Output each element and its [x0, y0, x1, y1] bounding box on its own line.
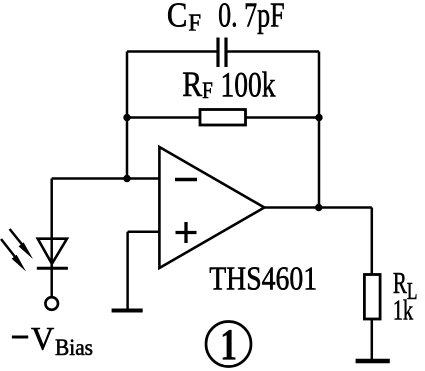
- svg-text:1k: 1k: [393, 294, 414, 326]
- label RL: [393, 266, 418, 305]
- wire inverting input: [52, 177, 160, 180]
- wire noninverting input: [128, 231, 160, 234]
- svg-text:F: F: [188, 11, 201, 37]
- wire RL bottom stem: [371, 319, 374, 361]
- wire RL top stem: [371, 208, 374, 276]
- photodiode cathode bar: [37, 267, 68, 270]
- wire top feedback branch right: [228, 50, 320, 53]
- ground (noninverting input): [112, 309, 143, 313]
- svg-text:THS4601: THS4601: [209, 261, 317, 298]
- label THS4601: [209, 261, 317, 298]
- svg-text:100k: 100k: [221, 65, 276, 105]
- junction node: output: [315, 204, 322, 211]
- light arrow upper: [10, 229, 33, 259]
- junction node: inverting input: [123, 175, 130, 182]
- capacitor CF 0.7pF: [218, 38, 226, 68]
- svg-text:Bias: Bias: [55, 335, 93, 360]
- resistor RL body: [364, 275, 380, 320]
- svg-text:F: F: [202, 78, 213, 103]
- resistor RF body: [200, 110, 246, 126]
- svg-text:V: V: [31, 322, 54, 358]
- label CF 0.7pF: [167, 0, 285, 37]
- svg-text:1: 1: [220, 320, 237, 369]
- wire right vertical (output feedback node): [318, 52, 321, 208]
- label RF 100k: [182, 64, 275, 105]
- wire photodiode stem: [50, 179, 53, 298]
- op-amp plus input symbol: [176, 222, 197, 243]
- junction node: RF left: [123, 114, 130, 121]
- op-amp minus input symbol: [175, 178, 197, 182]
- light arrow lower: [1, 239, 26, 272]
- wire top feedback branch left: [127, 50, 217, 53]
- svg-text:R: R: [182, 64, 202, 104]
- ground (RL): [356, 359, 390, 364]
- figure number 1 circle: [206, 320, 251, 369]
- svg-text:0. 7pF: 0. 7pF: [218, 0, 285, 35]
- junction node: RF right: [315, 114, 322, 121]
- op-amp U1 THS4601 triangle: [159, 147, 264, 268]
- wire ground stem (noninverting): [126, 232, 129, 311]
- photodiode D1 triangle: [38, 239, 67, 264]
- wire output: [264, 206, 372, 209]
- label 1k: [393, 294, 414, 326]
- wire left vertical (inverting feedback node): [126, 52, 129, 179]
- terminal circle (bias): [45, 297, 58, 310]
- wire RF branch: [127, 116, 319, 119]
- label -VBias: [12, 322, 93, 361]
- svg-text:C: C: [167, 0, 188, 35]
